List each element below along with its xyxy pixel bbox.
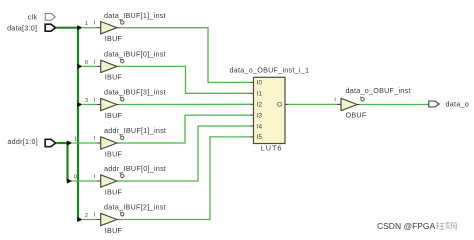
input port addr[1:0] (45, 139, 55, 146)
pin stub I data_IBUF[0] (97, 65, 101, 67)
svg-text:addr_IBUF[1]_inst: addr_IBUF[1]_inst (104, 126, 166, 135)
pin stub I addr_IBUF[0] (97, 180, 101, 182)
input port clk (45, 14, 55, 21)
wire branch data[2] (83, 219, 97, 221)
pin stub O row5 (117, 180, 119, 182)
wire net addr_IBUF[1] to LUT I3 (119, 115, 250, 143)
wire data bus vertical (77, 28, 79, 220)
wire net data_IBUF[0] to LUT I1 (119, 66, 250, 93)
wire branch addr[1] (72, 142, 96, 144)
svg-text:IBUF: IBUF (105, 226, 123, 235)
svg-text:I: I (94, 98, 96, 104)
svg-text:CSDN @FPGA: CSDN @FPGA (377, 221, 436, 231)
svg-text:0: 0 (74, 174, 77, 180)
wire branch data[3] (83, 104, 97, 106)
pin stub I4 (250, 125, 254, 127)
svg-text:data_o: data_o (446, 100, 469, 109)
pin stub O row2 (117, 65, 119, 67)
buffer addr_IBUF[0]_inst IBUF (101, 164, 166, 196)
pin stub O OBUF (357, 104, 359, 106)
svg-text:3: 3 (85, 98, 88, 104)
wire addr bus vertical (66, 143, 68, 181)
junction arrow addr bit 0 (67, 178, 73, 183)
svg-text:clk: clk (28, 12, 38, 21)
buffer addr_IBUF[1]_inst IBUF (101, 126, 166, 158)
svg-text:I0: I0 (257, 80, 263, 87)
LUT data_o_OBUF_inst_i_1 LUT6 (230, 66, 310, 153)
svg-text:I: I (94, 213, 96, 219)
pin stub O LUT6 (285, 103, 289, 105)
svg-text:data_IBUF[3]_inst: data_IBUF[3]_inst (104, 88, 166, 97)
svg-text:0: 0 (85, 60, 88, 66)
buffer data_IBUF[0]_inst IBUF (101, 50, 166, 82)
pin stub I OBUF (337, 103, 341, 105)
svg-text:data_IBUF[2]_inst: data_IBUF[2]_inst (104, 203, 166, 212)
pin stub O row3 (117, 104, 119, 106)
wire net data_IBUF[3] to LUT I2 (119, 103, 250, 105)
svg-text:1: 1 (74, 136, 77, 142)
pin stub O row1 (117, 27, 119, 29)
output port data_o (429, 101, 439, 107)
wire net data_o_OBUF to OBUF (289, 103, 337, 105)
svg-text:data_o_OBUF_inst_i_1: data_o_OBUF_inst_i_1 (230, 66, 310, 75)
junction arrow data bit 2 (77, 217, 83, 222)
pin stub O row6 (117, 219, 119, 221)
svg-text:data[3:0]: data[3:0] (7, 23, 37, 32)
pin stub I1 (250, 92, 254, 94)
svg-text:I4: I4 (257, 123, 263, 130)
svg-text:I: I (94, 21, 96, 27)
svg-text:1: 1 (85, 21, 88, 27)
svg-text:2: 2 (85, 213, 88, 219)
junction arrow data bit 1 (77, 25, 83, 30)
svg-text:IBUF: IBUF (105, 34, 123, 43)
wire branch data[0] (83, 65, 97, 67)
svg-text:IBUF: IBUF (105, 111, 123, 120)
wire branch addr[0] (72, 180, 96, 182)
svg-text:O: O (277, 102, 282, 109)
pin stub I5 (250, 136, 254, 138)
svg-text:I2: I2 (257, 102, 263, 109)
svg-text:I: I (94, 174, 96, 180)
wire net addr_IBUF[0] to LUT I4 (119, 126, 250, 181)
pin stub I3 (250, 114, 254, 116)
pin stub I2 (250, 103, 254, 105)
wire data bus horizontal (56, 27, 78, 29)
buffer data_o_OBUF_inst OBUF (341, 86, 411, 120)
svg-text:addr[1:0]: addr[1:0] (7, 137, 38, 146)
wire net data_o to port (360, 104, 429, 106)
svg-text:IBUF: IBUF (105, 73, 123, 82)
pin stub O row4 (117, 142, 119, 144)
svg-text:data_IBUF[0]_inst: data_IBUF[0]_inst (104, 50, 166, 59)
svg-text:LUT6: LUT6 (261, 143, 283, 152)
buffer data_IBUF[2]_inst IBUF (101, 203, 166, 235)
svg-text:IBUF: IBUF (105, 187, 123, 196)
svg-text:IBUF: IBUF (105, 149, 123, 158)
input port data[3:0] (45, 24, 55, 31)
wire net data_IBUF[1] to LUT I0 (119, 28, 250, 83)
buffer data_IBUF[1]_inst IBUF (101, 11, 166, 43)
svg-text:OBUF: OBUF (346, 111, 367, 120)
pin stub I addr_IBUF[1] (97, 142, 101, 144)
svg-text:data_IBUF[1]_inst: data_IBUF[1]_inst (104, 11, 166, 20)
pin stub I data_IBUF[1] (97, 27, 101, 29)
svg-text:addr_IBUF[0]_inst: addr_IBUF[0]_inst (104, 164, 166, 173)
svg-text:I: I (94, 59, 96, 65)
svg-text:I: I (334, 97, 336, 103)
pin stub I0 (250, 81, 254, 83)
pin stub I data_IBUF[2] (97, 219, 101, 221)
watermark CSDN @FPGA kuangbiao (377, 221, 457, 231)
wire addr bus horizontal (56, 142, 67, 144)
pin stub I data_IBUF[3] (97, 104, 101, 106)
junction arrow data bit 0 (77, 64, 83, 69)
svg-text:data_o_OBUF_inst: data_o_OBUF_inst (346, 86, 411, 95)
buffer data_IBUF[3]_inst IBUF (101, 88, 166, 120)
svg-text:I3: I3 (257, 112, 263, 119)
wire branch data[1] (83, 27, 97, 29)
wire net data_IBUF[2] to LUT I5 (119, 137, 250, 220)
svg-text:I: I (94, 136, 96, 142)
junction arrow data bit 3 (77, 102, 83, 107)
junction arrow addr bit 1 (67, 140, 73, 145)
svg-text:I1: I1 (257, 91, 263, 98)
svg-text:I5: I5 (257, 134, 263, 141)
